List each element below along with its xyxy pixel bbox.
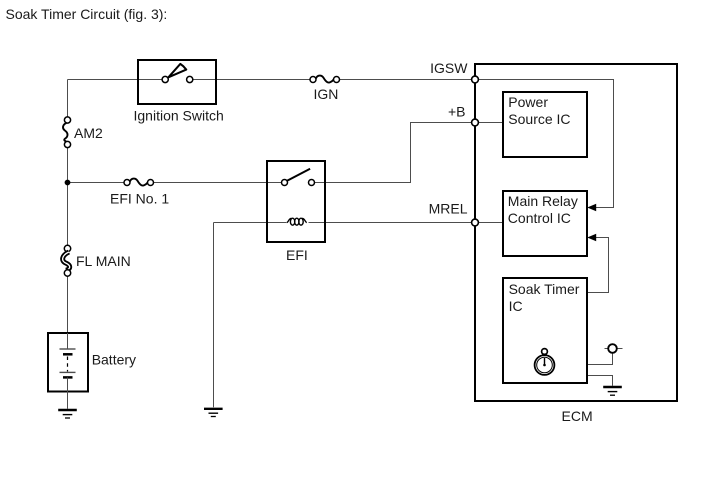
fuse EFI No.1 right circle: [148, 180, 154, 186]
wire: Soak Timer IC to internal ground: [587, 376, 613, 386]
fuse EFI No.1 element wave: [130, 179, 148, 186]
wire: IGN fuse to IGSW terminal: [337, 79, 476, 81]
relay EFI switch lever: [287, 169, 310, 181]
wire: MREL line through EFI coil: [214, 222, 287, 224]
fuse IGN left circle: [310, 77, 316, 83]
fuse EFI No.1 left circle: [124, 180, 130, 186]
terminal IGSW: [472, 76, 479, 83]
relay EFI switch right circle: [309, 180, 315, 186]
wire: EFI relay switch output up to +B terminal: [312, 123, 476, 183]
svg-text:AM2: AM2: [74, 125, 103, 141]
battery internal top lead: [67, 333, 69, 349]
svg-text:EFI: EFI: [286, 247, 308, 263]
IC box: Main Relay Control IC: [503, 191, 587, 256]
svg-text:Source IC: Source IC: [508, 111, 570, 127]
ground (EFI coil): [204, 409, 223, 417]
svg-text:Soak Timer: Soak Timer: [509, 281, 580, 297]
relay EFI switch left circle: [282, 180, 288, 186]
ground (ECM internal): [603, 387, 622, 395]
svg-text:Power: Power: [508, 94, 548, 110]
stopwatch icon (timer): [535, 349, 555, 375]
fusible link FL MAIN top circle: [64, 245, 70, 251]
ignition switch box: [138, 60, 216, 104]
battery cell 2 positive plate: [60, 371, 76, 373]
wire: EFI coil ground drop: [213, 223, 215, 408]
battery dashed middle link: [67, 357, 69, 372]
ECM outer box: [475, 64, 677, 401]
IC box: Soak Timer IC: [503, 278, 587, 383]
svg-text:EFI No. 1: EFI No. 1: [110, 191, 169, 207]
output terminal circle: [608, 344, 617, 353]
IC box: Power Source IC: [503, 92, 587, 157]
fuse AM2 bottom circle: [64, 141, 70, 147]
wire: AM2 through junction to FL MAIN: [67, 145, 69, 249]
wire: FL MAIN to battery: [67, 273, 69, 333]
output terminal lead line: [605, 348, 623, 350]
fusible link FL MAIN element (thick S): [63, 252, 70, 270]
ignition switch contact right circle: [187, 76, 193, 82]
wire: battery feed to ignition switch (horizontal): [68, 79, 166, 81]
wire: junction to EFI No.1 fuse: [68, 182, 128, 184]
battery cell 1 positive plate: [60, 348, 76, 350]
ignition switch lever (key): [168, 64, 186, 77]
fusible link FL MAIN bottom circle: [64, 270, 70, 276]
wire: MREL internal to Main Relay Control IC: [475, 222, 503, 224]
wire: EFI No.1 fuse to EFI relay switch: [151, 182, 285, 184]
svg-text:Main Relay: Main Relay: [508, 193, 578, 209]
ignition switch contact left circle: [162, 76, 168, 82]
fuse AM2 top circle: [64, 117, 70, 123]
relay EFI coil: [287, 218, 307, 225]
junction node: [65, 180, 71, 186]
wire: Soak Timer IC output to terminal: [587, 353, 613, 365]
svg-text:IGN: IGN: [314, 86, 339, 102]
svg-text:Control IC: Control IC: [508, 210, 571, 226]
svg-text:FL MAIN: FL MAIN: [76, 253, 131, 269]
wire: +B internal to Power Source IC: [475, 122, 503, 124]
ground (battery): [58, 410, 77, 418]
terminal MREL: [472, 219, 479, 226]
svg-text:+B: +B: [448, 103, 466, 119]
wire: IGSW internal routing to Main Relay Control IC: [475, 80, 614, 208]
relay EFI box: [267, 161, 325, 242]
fuse IGN right circle: [334, 77, 340, 83]
battery bottom lead to ground: [67, 377, 69, 408]
wire: ignition switch output to IGN fuse: [190, 79, 313, 81]
wire: Soak Timer IC feedback to Main Relay Control IC: [587, 238, 609, 293]
svg-text:MREL: MREL: [429, 200, 468, 216]
svg-text:ECM: ECM: [562, 408, 593, 424]
wire: left vertical bus top to AM2: [67, 80, 69, 121]
battery cell 2 negative plate: [63, 376, 73, 379]
arrow into Main Relay Control IC (from IGSW): [587, 204, 596, 212]
svg-text:Soak Timer Circuit (fig. 3):: Soak Timer Circuit (fig. 3):: [6, 6, 168, 22]
terminal +B: [472, 119, 479, 126]
svg-text:IC: IC: [509, 298, 523, 314]
battery box: [48, 333, 88, 392]
svg-text:Battery: Battery: [92, 352, 136, 368]
svg-text:Ignition Switch: Ignition Switch: [134, 107, 224, 123]
battery cell 1 negative plate: [63, 353, 73, 356]
fuse IGN element wave: [316, 76, 334, 83]
arrow into Main Relay Control IC (from Soak Timer IC): [587, 234, 596, 242]
fuse AM2 element wave: [63, 123, 67, 141]
svg-text:IGSW: IGSW: [430, 60, 468, 76]
